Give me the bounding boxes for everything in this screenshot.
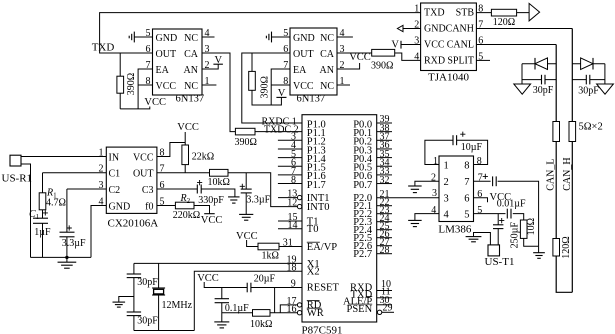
svg-text:VCC: VCC — [236, 231, 258, 242]
svg-text:5: 5 — [464, 209, 469, 220]
svg-text:CA: CA — [184, 49, 199, 60]
svg-text:8: 8 — [283, 76, 288, 87]
svg-text:GND: GND — [293, 33, 315, 44]
svg-text:CA: CA — [320, 49, 335, 60]
svg-text:CAN_L: CAN_L — [545, 159, 556, 191]
svg-text:STB: STB — [456, 8, 475, 19]
svg-text:2: 2 — [431, 173, 436, 184]
svg-text:6: 6 — [146, 44, 151, 55]
svg-text:5: 5 — [160, 197, 165, 208]
svg-text:7: 7 — [478, 20, 483, 31]
svg-text:4: 4 — [340, 28, 345, 39]
svg-text:VCC: VCC — [424, 40, 445, 51]
svg-text:US-R1: US-R1 — [2, 173, 33, 185]
svg-text:250µF: 250µF — [510, 222, 521, 249]
svg-text:2: 2 — [444, 177, 449, 188]
svg-text:7: 7 — [283, 60, 288, 71]
svg-text:14: 14 — [288, 220, 298, 231]
svg-text:390Ω: 390Ω — [234, 137, 256, 148]
svg-text:2: 2 — [414, 20, 419, 31]
svg-text:30pF: 30pF — [137, 315, 158, 326]
svg-text:INT0: INT0 — [307, 202, 330, 213]
svg-text:8: 8 — [160, 148, 165, 159]
svg-text:CANH: CANH — [446, 24, 474, 35]
svg-text:1µF: 1µF — [34, 227, 51, 238]
svg-text:3: 3 — [99, 180, 104, 191]
svg-text:NC: NC — [184, 33, 198, 44]
svg-text:EA/VP: EA/VP — [307, 242, 337, 253]
svg-text:6: 6 — [478, 36, 483, 47]
svg-text:T0: T0 — [307, 224, 319, 235]
svg-text:1: 1 — [444, 160, 449, 171]
svg-text:2: 2 — [99, 164, 104, 175]
svg-text:28: 28 — [380, 245, 390, 256]
svg-text:1: 1 — [99, 148, 104, 159]
svg-text:4.7Ω: 4.7Ω — [46, 197, 66, 208]
svg-text:AN: AN — [320, 65, 334, 76]
svg-text:120Ω: 120Ω — [493, 17, 515, 28]
svg-text:220kΩ: 220kΩ — [173, 210, 200, 221]
svg-text:8: 8 — [291, 175, 296, 186]
svg-text:10kΩ: 10kΩ — [207, 177, 229, 188]
svg-text:1kΩ: 1kΩ — [262, 251, 279, 262]
svg-text:US-T1: US-T1 — [485, 256, 515, 268]
svg-text:30pF: 30pF — [137, 277, 158, 288]
svg-text:VCC: VCC — [349, 52, 371, 63]
svg-text:1: 1 — [340, 76, 345, 87]
svg-text:P1.7: P1.7 — [307, 180, 326, 191]
svg-text:VCC: VCC — [197, 273, 219, 284]
svg-text:3: 3 — [444, 194, 449, 205]
svg-text:1: 1 — [414, 4, 419, 15]
svg-text:V: V — [391, 40, 399, 51]
svg-text:12MHz: 12MHz — [162, 300, 193, 311]
svg-text:6N137: 6N137 — [176, 94, 205, 105]
svg-text:8: 8 — [477, 156, 482, 167]
svg-text:16: 16 — [287, 304, 297, 315]
svg-text:OUT: OUT — [293, 49, 314, 60]
svg-text:VCC: VCC — [133, 153, 154, 164]
svg-text:4: 4 — [444, 209, 450, 220]
svg-text:6N137: 6N137 — [297, 94, 326, 105]
svg-text:3: 3 — [414, 36, 419, 47]
svg-text:VCC: VCC — [144, 97, 166, 108]
svg-text:5: 5 — [283, 28, 288, 39]
svg-text:V: V — [278, 88, 286, 99]
svg-text:2: 2 — [340, 60, 345, 71]
svg-text:10kΩ: 10kΩ — [250, 319, 272, 330]
svg-text:GND: GND — [424, 24, 446, 35]
svg-text:0.01µF: 0.01µF — [497, 198, 526, 209]
svg-text:OUT: OUT — [156, 49, 177, 60]
svg-text:4: 4 — [414, 51, 419, 62]
svg-text:C2: C2 — [109, 185, 121, 196]
svg-text:C1: C1 — [109, 169, 121, 180]
svg-text:EA: EA — [293, 65, 307, 76]
svg-text:7: 7 — [464, 177, 469, 188]
svg-text:4: 4 — [431, 205, 436, 216]
svg-text:OUT: OUT — [133, 169, 154, 180]
svg-text:5: 5 — [146, 28, 151, 39]
svg-text:TXD: TXD — [424, 8, 445, 19]
svg-text:7: 7 — [478, 173, 483, 184]
svg-text:SPLIT: SPLIT — [447, 55, 474, 66]
svg-text:8: 8 — [464, 160, 469, 171]
svg-text:6: 6 — [477, 189, 482, 200]
svg-text:3: 3 — [432, 188, 437, 199]
svg-text:PSEN: PSEN — [347, 304, 373, 315]
svg-text:390Ω: 390Ω — [126, 73, 137, 95]
svg-text:NC: NC — [320, 81, 334, 92]
svg-text:31: 31 — [283, 238, 293, 249]
svg-text:120Ω: 120Ω — [561, 236, 572, 258]
svg-text:RXD: RXD — [424, 55, 445, 66]
svg-text:3.3µF: 3.3µF — [62, 238, 86, 249]
svg-text:P87C591: P87C591 — [302, 325, 343, 334]
svg-text:TJA1040: TJA1040 — [428, 72, 469, 84]
svg-text:NC: NC — [184, 81, 198, 92]
svg-text:EA: EA — [156, 65, 170, 76]
svg-text:30pF: 30pF — [578, 86, 599, 97]
svg-text:1: 1 — [433, 156, 438, 167]
svg-text:V: V — [215, 55, 223, 66]
svg-text:3: 3 — [205, 44, 210, 55]
svg-text:1: 1 — [205, 76, 210, 87]
svg-text:2: 2 — [205, 60, 210, 71]
svg-text:6: 6 — [464, 194, 469, 205]
svg-text:8: 8 — [146, 76, 151, 87]
svg-text:4: 4 — [99, 197, 104, 208]
svg-text:GND: GND — [109, 202, 131, 213]
svg-text:9: 9 — [291, 279, 296, 290]
svg-text:20µF: 20µF — [254, 274, 276, 285]
svg-text:6: 6 — [283, 44, 288, 55]
svg-text:TXD: TXD — [92, 42, 115, 54]
svg-text:3.3µF: 3.3µF — [246, 195, 270, 206]
svg-text:CANL: CANL — [447, 40, 474, 51]
svg-text:X2: X2 — [307, 267, 320, 278]
svg-text:4: 4 — [205, 28, 210, 39]
svg-text:AN: AN — [184, 65, 198, 76]
svg-text:P2.7: P2.7 — [353, 249, 372, 260]
svg-text:330pF: 330pF — [198, 195, 224, 206]
svg-text:WR: WR — [307, 308, 324, 319]
svg-text:LM386: LM386 — [438, 223, 472, 235]
svg-text:IN: IN — [109, 153, 120, 164]
svg-text:VCC: VCC — [293, 81, 314, 92]
svg-text:7: 7 — [160, 164, 165, 175]
svg-text:10µF: 10µF — [461, 142, 483, 153]
svg-text:VCC: VCC — [177, 122, 199, 133]
svg-text:CAN_H: CAN_H — [562, 157, 573, 190]
svg-text:VCC: VCC — [201, 215, 223, 226]
svg-text:6: 6 — [160, 180, 165, 191]
svg-text:P0.7: P0.7 — [353, 180, 372, 191]
svg-text:5: 5 — [478, 51, 483, 62]
svg-text:RESET: RESET — [307, 283, 340, 294]
svg-text:7: 7 — [146, 60, 151, 71]
svg-text:5: 5 — [477, 205, 482, 216]
svg-text:3: 3 — [340, 44, 345, 55]
svg-text:18: 18 — [287, 263, 297, 274]
svg-text:f0: f0 — [145, 202, 153, 213]
svg-text:390Ω: 390Ω — [371, 60, 393, 71]
svg-text:12: 12 — [287, 198, 297, 209]
svg-text:32: 32 — [380, 175, 390, 186]
svg-text:GND: GND — [156, 33, 178, 44]
svg-text:390Ω: 390Ω — [260, 76, 271, 98]
svg-text:CX20106A: CX20106A — [108, 218, 159, 230]
svg-text:5Ω×2: 5Ω×2 — [579, 121, 603, 132]
svg-text:8: 8 — [478, 4, 483, 15]
svg-text:30pF: 30pF — [533, 85, 554, 96]
svg-text:29: 29 — [383, 303, 393, 314]
svg-text:10Ω: 10Ω — [526, 218, 537, 235]
svg-text:0.1µF: 0.1µF — [225, 303, 249, 314]
svg-text:NC: NC — [320, 33, 334, 44]
svg-text:22kΩ: 22kΩ — [192, 151, 214, 162]
svg-text:VCC: VCC — [156, 81, 177, 92]
svg-text:C3: C3 — [142, 185, 154, 196]
